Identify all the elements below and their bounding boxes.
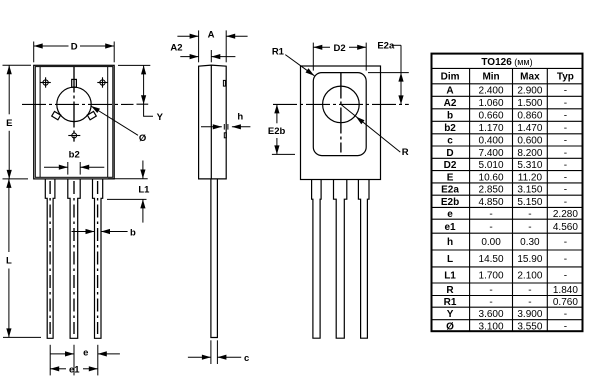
svg-text:L1: L1 (138, 185, 150, 196)
front top index tab (72, 79, 77, 87)
svg-text:TO126 (мм): TO126 (мм) (481, 57, 532, 68)
front lead 3 (right) (93, 179, 103, 338)
svg-text:-: - (564, 309, 567, 320)
front central hole circle (57, 87, 91, 121)
svg-text:D2: D2 (334, 43, 346, 54)
dimension b left arrow (86, 229, 95, 234)
svg-text:b: b (130, 227, 136, 238)
svg-text:h: h (237, 112, 243, 123)
front vertical centerline (73, 67, 75, 142)
dimension e1 line (50, 368, 66, 370)
svg-text:1.170: 1.170 (479, 123, 504, 134)
svg-text:5.150: 5.150 (517, 197, 542, 208)
svg-text:3.600: 3.600 (479, 309, 504, 320)
svg-text:E2b: E2b (268, 126, 286, 137)
dimension A extension lines (198, 30, 200, 62)
back view hole circle (323, 86, 360, 123)
dimension e right-pointing arrow (65, 351, 74, 356)
dimension D2 extension lines (312, 43, 314, 71)
dimension L1 extension lines (108, 178, 148, 180)
front lead 2 centerline (73, 181, 75, 334)
svg-text:0.30: 0.30 (520, 237, 540, 248)
dimension E2a bottom arrow (398, 95, 403, 104)
svg-text:14.50: 14.50 (479, 254, 504, 265)
svg-text:-: - (564, 237, 567, 248)
svg-text:Min: Min (482, 72, 499, 83)
svg-text:0.600: 0.600 (517, 136, 542, 147)
dimension Y leader (144, 104, 153, 116)
svg-text:h: h (447, 237, 453, 248)
table horizontal row lines (433, 67, 583, 69)
svg-text:5.010: 5.010 (479, 160, 504, 171)
svg-text:-: - (564, 271, 567, 282)
svg-text:-: - (564, 172, 567, 183)
svg-text:Max: Max (520, 72, 540, 83)
dimension b right arrow (101, 229, 110, 234)
svg-text:-: - (564, 197, 567, 208)
dimension b tails (72, 231, 95, 233)
svg-text:E2b: E2b (441, 197, 459, 208)
dimension E2b bottom arrow (274, 145, 279, 154)
front body right chamfer line (107, 67, 109, 177)
svg-text:0.00: 0.00 (481, 237, 501, 248)
back vertical centerline (340, 73, 342, 153)
front view body inner outline (35, 67, 113, 178)
dimension E bottom arrow (7, 170, 12, 179)
svg-text:-: - (564, 254, 567, 265)
svg-text:-: - (564, 98, 567, 109)
svg-text:-: - (564, 160, 567, 171)
svg-text:e: e (447, 209, 453, 220)
dimension h right arrow (232, 124, 241, 129)
dimension Y top arrow (141, 65, 146, 74)
dimension E extension lines (3, 64, 32, 66)
dimension D extension lines (33, 42, 35, 63)
R leader line (341, 104, 400, 152)
svg-text:A2: A2 (444, 98, 457, 109)
back horizontal centerline (273, 103, 409, 105)
svg-text:-: - (564, 322, 567, 333)
svg-text:R: R (402, 147, 409, 158)
svg-text:5.310: 5.310 (517, 160, 542, 171)
svg-text:15.90: 15.90 (517, 254, 542, 265)
dimension Y reference segment (137, 103, 149, 105)
dimension e1 left arrow (50, 366, 59, 371)
svg-text:Ø: Ø (446, 322, 454, 333)
svg-text:1.060: 1.060 (479, 98, 504, 109)
dimension D right arrow (105, 43, 114, 48)
dimension D2 left arrow (313, 45, 322, 50)
dimension L line (8, 179, 10, 252)
dimension A left arrow (190, 34, 199, 39)
svg-text:-: - (528, 209, 531, 220)
back lead 1 (left) (312, 180, 322, 339)
dimension b2 tails (44, 166, 68, 168)
svg-text:D2: D2 (444, 160, 457, 171)
dimension A right arrow (226, 34, 235, 39)
side view tab notch lower (224, 133, 226, 138)
svg-text:-: - (564, 136, 567, 147)
diameter leader arrow (91, 106, 100, 113)
front mounting hole left (40, 77, 50, 87)
dimension c extension lines (210, 340, 212, 364)
svg-text:0.760: 0.760 (553, 297, 578, 308)
svg-text:-: - (564, 148, 567, 159)
svg-text:-: - (528, 285, 531, 296)
dimension c tails (188, 356, 211, 358)
front view body outer outline (34, 65, 115, 179)
dimension E2b top arrow (274, 104, 279, 113)
svg-text:-: - (489, 222, 492, 233)
dimension E2a top arrow (398, 73, 403, 82)
svg-text:2.400: 2.400 (479, 86, 504, 97)
dimension A2 tails (180, 56, 198, 58)
dimension D line (34, 45, 69, 47)
dimension D left arrow (34, 43, 43, 48)
dimension E2a extension line (368, 72, 409, 74)
dimension e1 right arrow (89, 366, 98, 371)
dimension D2 line (313, 46, 330, 48)
front lead 1 (left) (45, 179, 55, 338)
dimension Y extension line (118, 64, 150, 66)
svg-text:D: D (71, 42, 78, 53)
svg-text:D: D (446, 148, 453, 159)
svg-text:-: - (528, 222, 531, 233)
dimension e tails (50, 353, 74, 355)
svg-text:4.560: 4.560 (553, 222, 578, 233)
svg-text:-: - (489, 209, 492, 220)
front lower-left tab (52, 111, 61, 119)
svg-text:E: E (447, 172, 454, 183)
svg-text:R1: R1 (444, 297, 457, 308)
svg-text:A: A (446, 86, 453, 97)
front small pilot hole crosshair (68, 133, 80, 138)
svg-text:-: - (564, 123, 567, 134)
dimension E2b line (276, 104, 278, 123)
svg-text:Dim: Dim (441, 72, 460, 83)
svg-text:1.500: 1.500 (517, 98, 542, 109)
dimensions table frame (432, 54, 583, 332)
svg-text:L: L (6, 256, 12, 267)
dimension E2b extension line (272, 153, 295, 155)
svg-text:e: e (83, 348, 88, 359)
back view rounded recess (313, 73, 366, 156)
front lead 1 centerline (49, 181, 51, 334)
svg-text:E: E (6, 118, 12, 129)
svg-text:3.550: 3.550 (517, 322, 542, 333)
dimension L top arrow (6, 179, 11, 188)
dimension h tails (201, 126, 222, 128)
side view tab notch upper (223, 80, 225, 86)
dimension A2 extension line (210, 50, 212, 62)
svg-text:3.900: 3.900 (517, 309, 542, 320)
svg-text:1.700: 1.700 (479, 271, 504, 282)
svg-text:8.200: 8.200 (517, 148, 542, 159)
svg-text:0.860: 0.860 (517, 111, 542, 122)
dimension L extension line (3, 336, 41, 338)
svg-text:2.100: 2.100 (517, 271, 542, 282)
svg-text:0.400: 0.400 (479, 136, 504, 147)
svg-text:-: - (528, 297, 531, 308)
svg-text:c: c (447, 136, 453, 147)
svg-text:b: b (447, 111, 453, 122)
svg-text:-: - (564, 185, 567, 196)
side view lead (211, 179, 218, 338)
svg-text:Ø: Ø (139, 133, 146, 144)
svg-text:b2: b2 (444, 123, 456, 134)
svg-text:-: - (564, 111, 567, 122)
dimension c left arrow (202, 355, 211, 360)
front lead 2 (middle) (68, 179, 80, 338)
dimension e left-pointing arrow (98, 351, 107, 356)
svg-text:10.60: 10.60 (479, 172, 504, 183)
svg-text:-: - (564, 86, 567, 97)
svg-text:Typ: Typ (557, 72, 574, 83)
svg-text:L1: L1 (444, 271, 456, 282)
svg-text:A: A (208, 29, 215, 40)
svg-text:E2a: E2a (441, 185, 459, 196)
dimension h ticks (223, 124, 225, 130)
dimension b2 right arrow (80, 165, 89, 170)
front lead 3 centerline (97, 181, 99, 334)
dimension b2 extension lines (67, 162, 69, 175)
svg-text:-: - (489, 297, 492, 308)
diameter leader line (91, 106, 138, 135)
svg-text:1.840: 1.840 (553, 285, 578, 296)
svg-text:L: L (447, 254, 453, 265)
dimension h left arrow (213, 124, 222, 129)
svg-text:e1: e1 (444, 222, 456, 233)
svg-text:R: R (446, 285, 454, 296)
front body left chamfer line (39, 67, 41, 177)
svg-text:b2: b2 (69, 150, 80, 161)
svg-text:0.660: 0.660 (479, 111, 504, 122)
svg-text:-: - (489, 285, 492, 296)
svg-text:4.850: 4.850 (479, 197, 504, 208)
dimension E2a leader (392, 44, 401, 46)
dimension A2 left arrow (190, 54, 199, 59)
svg-text:11.20: 11.20 (518, 172, 543, 183)
svg-text:3.150: 3.150 (517, 185, 542, 196)
dimension A2 right arrow (211, 54, 220, 59)
svg-text:1.470: 1.470 (517, 123, 542, 134)
svg-text:2.900: 2.900 (517, 86, 542, 97)
svg-text:Y: Y (157, 112, 164, 123)
dimension Y line (143, 65, 145, 104)
dimension D2 right arrow (357, 45, 366, 50)
R1 leader line (285, 55, 314, 76)
back lead 2 (middle) (334, 180, 347, 339)
front mounting hole right (97, 77, 107, 87)
svg-text:R1: R1 (272, 46, 285, 57)
svg-text:2.850: 2.850 (479, 185, 504, 196)
dimension E line (8, 65, 10, 114)
R leader arrow (356, 117, 365, 125)
dimension E top arrow (7, 65, 12, 74)
svg-text:2.280: 2.280 (553, 209, 578, 220)
dimension L1 arrows (142, 161, 144, 179)
side view body outline (199, 65, 227, 179)
svg-text:A2: A2 (170, 43, 182, 54)
svg-text:e1: e1 (69, 365, 80, 376)
front horizontal centerline (22, 103, 134, 105)
dimension c right arrow (217, 355, 226, 360)
dimension b2 left arrow (59, 165, 68, 170)
front lower-right tab (87, 111, 96, 119)
back view body outline (301, 66, 381, 180)
svg-text:Y: Y (447, 309, 454, 320)
dimension L bottom arrow (6, 328, 11, 337)
table column lines (469, 68, 471, 331)
dimension A tails (177, 35, 198, 37)
svg-text:c: c (244, 353, 249, 364)
dimension Y bottom arrow (141, 95, 146, 104)
svg-text:3.100: 3.100 (479, 322, 504, 333)
side view body step line (210, 65, 212, 179)
dimension e extension lines (49, 345, 51, 376)
svg-text:E2a: E2a (377, 41, 395, 52)
back lead 3 (right) (358, 180, 369, 339)
R1 leader arrow (306, 68, 315, 75)
svg-text:7.400: 7.400 (479, 148, 504, 159)
